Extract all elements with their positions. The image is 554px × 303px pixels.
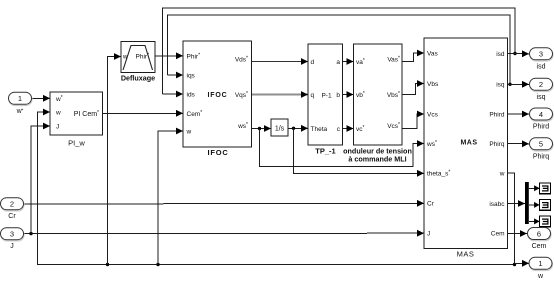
svg-text:Phird: Phird	[533, 124, 549, 131]
svg-text:à commande MLI: à commande MLI	[348, 155, 406, 164]
svg-text:Cem: Cem	[491, 231, 505, 238]
svg-text:isq: isq	[537, 94, 546, 101]
svg-text:w: w	[122, 55, 128, 61]
svg-text:theta_s*: theta_s*	[427, 170, 450, 178]
svg-text:PI Cem*: PI Cem*	[74, 110, 99, 118]
svg-text:Phir*: Phir*	[187, 52, 201, 60]
svg-text:isd: isd	[496, 51, 505, 58]
svg-text:Phir*: Phir*	[136, 53, 150, 61]
svg-text:J: J	[56, 124, 59, 131]
svg-text:IFOC: IFOC	[208, 92, 228, 99]
svg-text:w: w	[186, 129, 192, 136]
svg-text:Cem*: Cem*	[187, 110, 203, 118]
svg-text:d: d	[311, 59, 315, 66]
svg-text:Defluxage: Defluxage	[121, 74, 155, 83]
svg-text:isabc: isabc	[489, 201, 505, 208]
svg-text:Vas: Vas	[427, 51, 438, 58]
svg-text:w: w	[55, 110, 61, 117]
svg-text:ids: ids	[187, 92, 196, 99]
svg-text:2: 2	[10, 200, 14, 209]
svg-text:Theta: Theta	[311, 126, 328, 133]
svg-text:Cr: Cr	[8, 213, 16, 220]
svg-text:PI_w: PI_w	[68, 139, 85, 148]
svg-text:Cr: Cr	[427, 201, 435, 208]
svg-text:isq: isq	[496, 82, 505, 89]
svg-text:3: 3	[10, 230, 14, 239]
svg-text:Phirq: Phirq	[489, 141, 505, 148]
svg-text:5: 5	[539, 140, 543, 149]
svg-text:IFOC: IFOC	[207, 148, 228, 157]
svg-text:Phird: Phird	[489, 112, 505, 119]
svg-text:isd: isd	[537, 63, 546, 70]
svg-text:1/s: 1/s	[275, 126, 285, 133]
svg-text:1: 1	[18, 94, 22, 103]
svg-text:J: J	[10, 243, 14, 250]
svg-text:iqs: iqs	[187, 73, 196, 80]
svg-text:w: w	[537, 273, 544, 280]
svg-text:a: a	[336, 59, 340, 66]
svg-text:Phirq: Phirq	[533, 153, 549, 160]
svg-text:1: 1	[538, 259, 542, 268]
svg-text:TP_-1: TP_-1	[315, 147, 335, 156]
svg-text:Vcs: Vcs	[427, 112, 439, 119]
svg-text:3: 3	[539, 50, 543, 59]
svg-text:w: w	[499, 171, 505, 178]
svg-text:J: J	[427, 231, 430, 238]
svg-text:4: 4	[539, 110, 543, 119]
svg-text:b: b	[336, 92, 340, 99]
svg-text:q: q	[311, 92, 315, 99]
svg-text:MAS: MAS	[460, 140, 477, 147]
svg-text:P-1: P-1	[321, 92, 332, 99]
svg-text:6: 6	[537, 229, 541, 238]
svg-text:2: 2	[539, 80, 543, 89]
svg-text:MAS: MAS	[457, 250, 475, 259]
svg-text:Vbs: Vbs	[427, 81, 439, 88]
svg-text:Cem: Cem	[532, 243, 547, 250]
